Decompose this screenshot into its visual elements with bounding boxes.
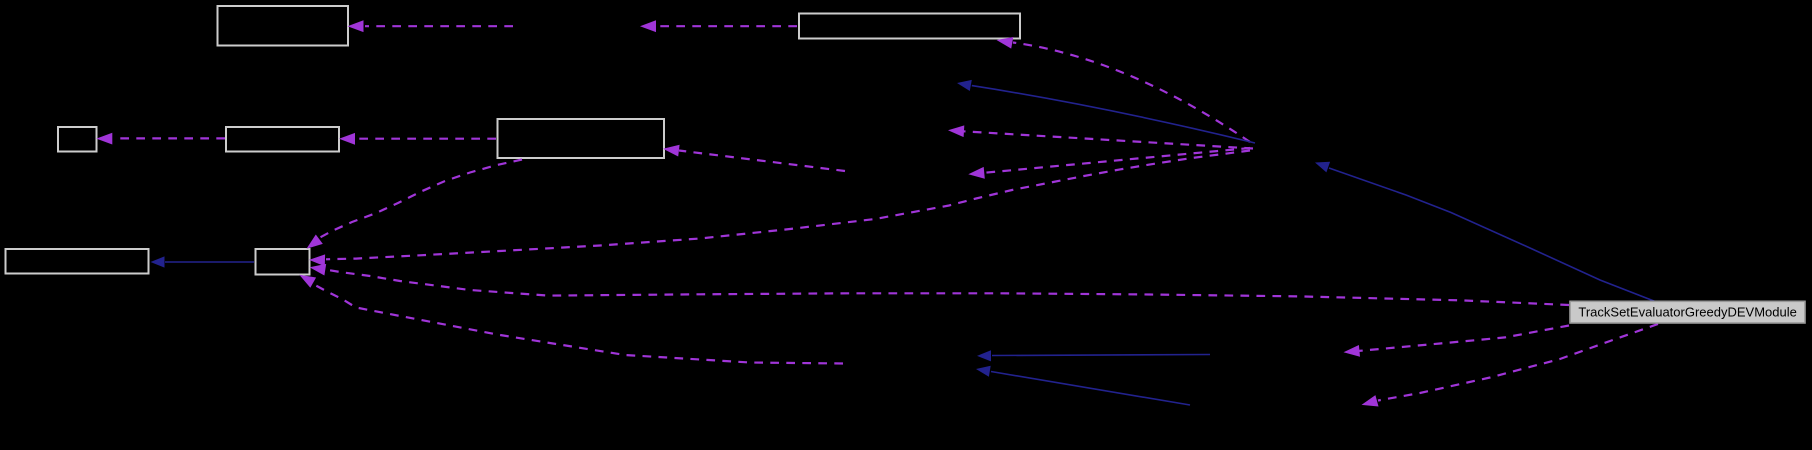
svg-text:TrackSetEvaluatorGreedyDEVModu: TrackSetEvaluatorGreedyDEVModule <box>1578 305 1796 320</box>
